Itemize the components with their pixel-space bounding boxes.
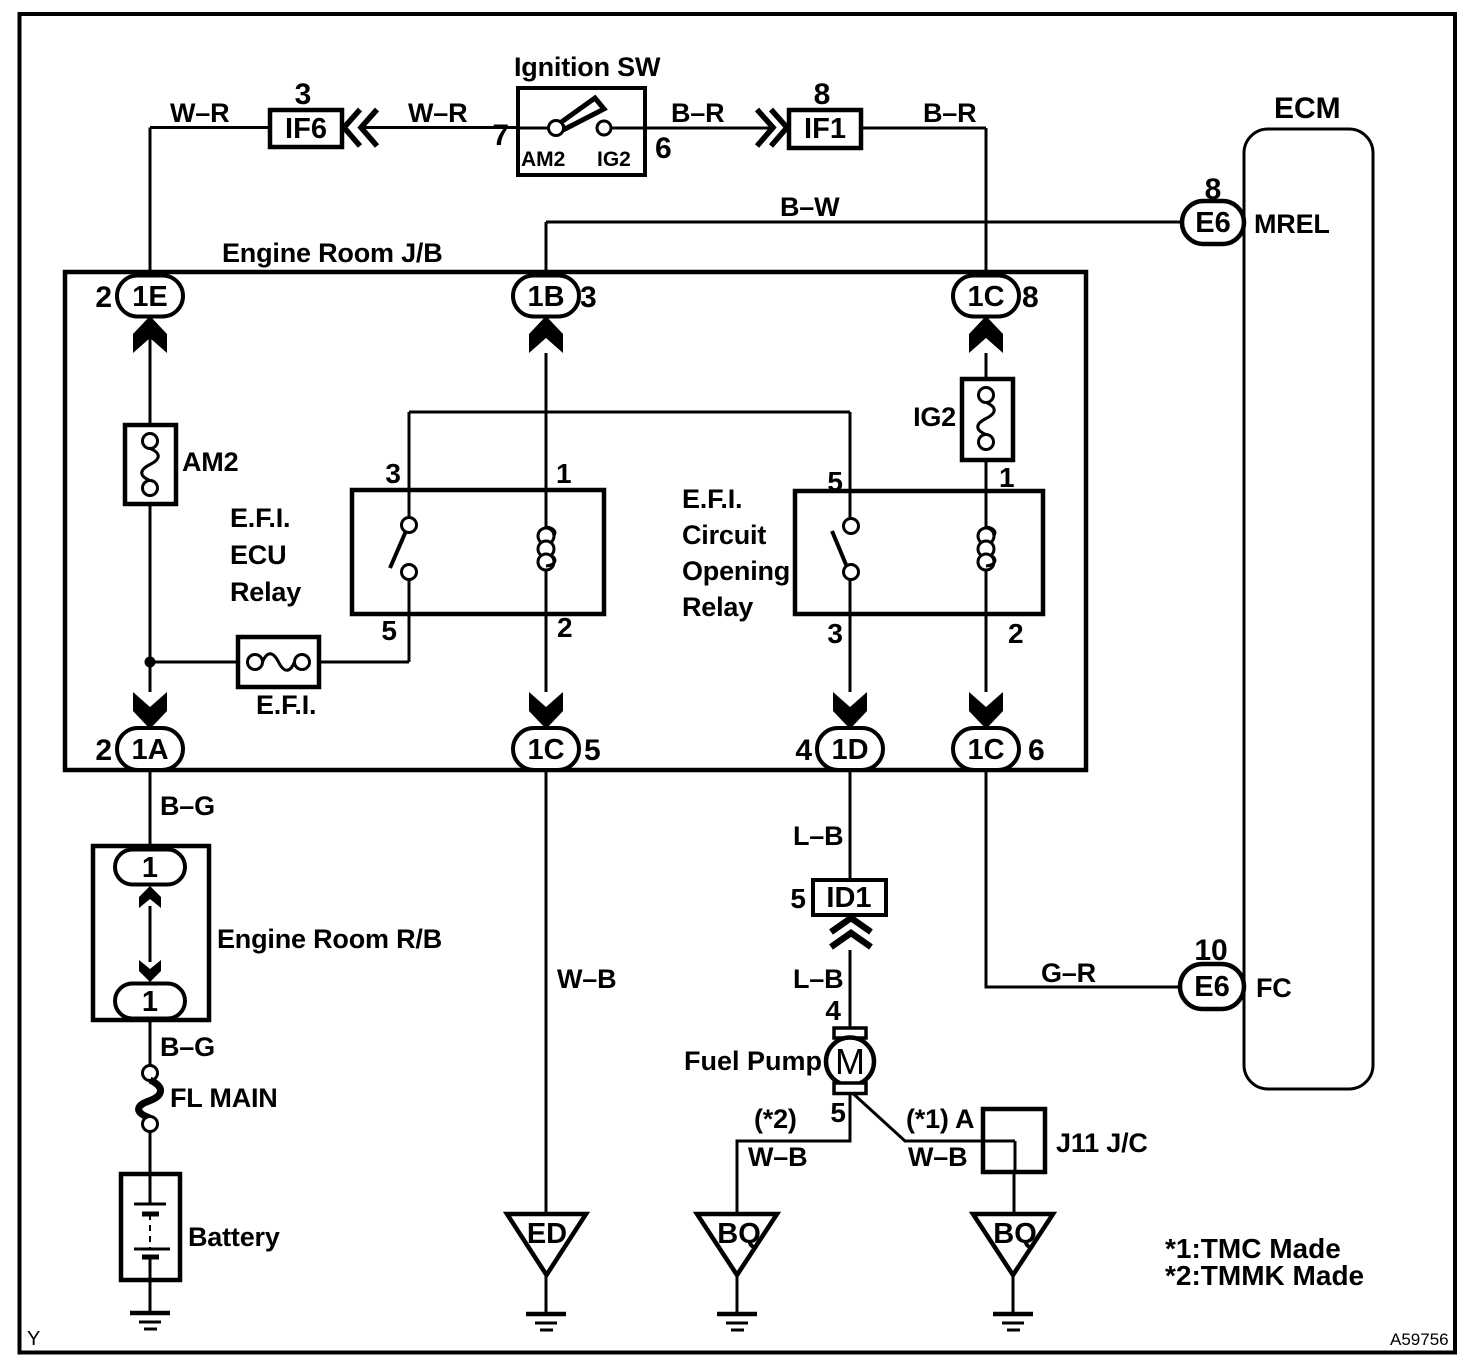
- wire pump to left BQ: [737, 1094, 850, 1214]
- arrow down above 1C5: [529, 692, 563, 729]
- svg-text:Engine Room J/B: Engine Room J/B: [222, 238, 443, 268]
- svg-text:1D: 1D: [831, 734, 868, 766]
- ECU relay coil: [546, 527, 555, 537]
- svg-text:ID1: ID1: [826, 882, 871, 914]
- fuse AM2 wire segments: [149, 353, 152, 441]
- R/B oval 1 bottom: [115, 984, 185, 1019]
- ground battery: [130, 1311, 170, 1316]
- svg-text:E6: E6: [1195, 207, 1230, 239]
- svg-text:ECU: ECU: [230, 540, 286, 570]
- svg-text:B–G: B–G: [160, 791, 215, 821]
- wire EFI fuse to pin5: [303, 661, 409, 664]
- small arrow up: [139, 886, 161, 908]
- svg-text:B–R: B–R: [923, 98, 976, 128]
- svg-text:Circuit: Circuit: [682, 520, 766, 550]
- junction dot: [145, 657, 156, 668]
- arrow down above 1C6: [969, 692, 1003, 729]
- chevrons left-pointing at IF6: [344, 110, 377, 147]
- wire chevron to pump: [849, 950, 852, 1028]
- svg-text:IG2: IG2: [597, 148, 631, 171]
- wire W-R left horizontal: [150, 126, 270, 129]
- svg-text:BQ: BQ: [993, 1218, 1037, 1250]
- svg-text:1: 1: [142, 852, 158, 884]
- svg-text:Relay: Relay: [230, 577, 301, 607]
- svg-text:3: 3: [827, 618, 843, 649]
- fuse IG2: [962, 379, 1013, 460]
- wire pin5 vertical of opening relay: [849, 412, 852, 520]
- R/B oval 1 top: [115, 850, 185, 885]
- svg-text:W–R: W–R: [408, 98, 467, 128]
- relay box circuit opening: [795, 491, 1043, 614]
- small arrow down: [139, 960, 161, 982]
- svg-text:E.F.I.: E.F.I.: [682, 484, 742, 514]
- svg-text:J11 J/C: J11 J/C: [1056, 1128, 1148, 1158]
- svg-text:*2:TMMK Made: *2:TMMK Made: [1165, 1260, 1364, 1291]
- svg-text:AM2: AM2: [521, 148, 565, 171]
- svg-text:2: 2: [95, 281, 112, 314]
- svg-text:IF6: IF6: [285, 113, 327, 145]
- chevrons right-pointing at IF1: [757, 110, 787, 147]
- ignition switch box: [518, 88, 645, 175]
- ignition lever: [560, 98, 604, 129]
- wire B-R from IF1 to right column: [861, 127, 986, 130]
- svg-text:Y: Y: [27, 1328, 40, 1350]
- wire B-W horizontal to MREL: [546, 221, 1182, 224]
- svg-text:Fuel Pump: Fuel Pump: [684, 1046, 822, 1076]
- wire pin3 vertical: [408, 412, 411, 519]
- wire vertical to 1C8: [985, 128, 988, 278]
- svg-text:3: 3: [580, 281, 597, 314]
- svg-text:5: 5: [827, 466, 843, 497]
- svg-text:6: 6: [655, 132, 672, 165]
- svg-text:5: 5: [381, 615, 397, 646]
- wire left vertical to 1E: [149, 128, 152, 279]
- svg-text:2: 2: [1008, 618, 1024, 649]
- svg-text:G–R: G–R: [1041, 958, 1096, 988]
- svg-text:1E: 1E: [132, 281, 167, 313]
- svg-text:7: 7: [492, 119, 509, 152]
- ground BQ left: [717, 1312, 757, 1317]
- svg-text:1: 1: [556, 458, 572, 489]
- wire 1E to AM2 fuse: [149, 316, 152, 441]
- connector 1C pin 6: [953, 728, 1019, 770]
- wire 1A to R/B: [149, 770, 152, 850]
- wire AM2 col to 1A: [149, 662, 152, 692]
- connector 1D: [817, 728, 883, 770]
- opening relay switch: [832, 531, 847, 567]
- svg-text:(*1) A: (*1) A: [906, 1104, 974, 1134]
- ground BQ right: [993, 1312, 1033, 1317]
- ECM box: [1244, 129, 1373, 1089]
- arrow up below 1B: [529, 316, 563, 353]
- fuse IG2 wire segments: [985, 353, 988, 394]
- double chevron up: [831, 918, 871, 947]
- arrow up below 1E: [133, 316, 167, 353]
- ground ED: [526, 1312, 566, 1317]
- svg-text:FL MAIN: FL MAIN: [170, 1083, 278, 1113]
- svg-text:5: 5: [790, 883, 806, 914]
- wire R/B to FL MAIN: [149, 1018, 152, 1073]
- svg-text:B–G: B–G: [160, 1032, 215, 1062]
- fuse AM2: [125, 425, 176, 504]
- svg-text:Engine Room R/B: Engine Room R/B: [217, 924, 442, 954]
- connector 1B: [513, 276, 579, 317]
- svg-text:W–B: W–B: [557, 964, 616, 994]
- wire pin5 of ECU relay: [408, 579, 411, 662]
- svg-text:8: 8: [1022, 281, 1039, 314]
- wire inside R/B: [149, 906, 152, 962]
- ground triangle BQ right: [973, 1214, 1053, 1275]
- relay box E.F.I. ECU: [352, 490, 604, 614]
- svg-text:1: 1: [142, 986, 158, 1018]
- svg-text:1B: 1B: [527, 281, 564, 313]
- svg-text:1: 1: [999, 462, 1015, 493]
- svg-text:ED: ED: [527, 1218, 567, 1250]
- svg-text:(*2): (*2): [754, 1104, 797, 1134]
- wire pump diagonal to J11: [853, 1094, 983, 1142]
- svg-text:L–B: L–B: [793, 821, 843, 851]
- Engine Room J/B box: [65, 272, 1086, 770]
- svg-text:3: 3: [385, 458, 401, 489]
- svg-text:1C: 1C: [527, 734, 564, 766]
- wire junction to EFI fuse: [150, 661, 254, 664]
- junction connector J11 J/C: [983, 1109, 1045, 1172]
- ground triangle ED: [507, 1214, 586, 1275]
- svg-text:2: 2: [95, 734, 112, 767]
- connector 1E: [117, 276, 183, 317]
- svg-text:W–B: W–B: [908, 1142, 967, 1172]
- fuse connector IF1: [789, 110, 861, 148]
- svg-text:3: 3: [295, 78, 312, 111]
- wire B-R from ignition to IF1: [645, 127, 770, 130]
- svg-text:B–R: B–R: [671, 98, 724, 128]
- svg-text:5: 5: [830, 1097, 846, 1128]
- wire 1D to ID1: [849, 770, 852, 880]
- wire 1B to ECU relay coil: [545, 353, 548, 527]
- svg-text:E6: E6: [1194, 971, 1229, 1003]
- svg-text:Opening: Opening: [682, 556, 790, 586]
- svg-text:BQ: BQ: [717, 1218, 761, 1250]
- wire 1C5 to ED: [545, 770, 548, 1213]
- fuse E.F.I.: [238, 637, 319, 687]
- svg-text:4: 4: [795, 734, 812, 767]
- svg-text:2: 2: [557, 612, 573, 643]
- svg-text:W–R: W–R: [170, 98, 229, 128]
- fusible link FL MAIN: [143, 1066, 158, 1081]
- svg-text:E.F.I.: E.F.I.: [256, 690, 316, 720]
- wire pin3 of opening relay down: [849, 579, 852, 692]
- svg-text:M: M: [835, 1041, 865, 1082]
- svg-text:1C: 1C: [967, 281, 1004, 313]
- arrow down above 1D: [833, 692, 867, 729]
- svg-text:ECM: ECM: [1274, 92, 1341, 125]
- svg-text:8: 8: [814, 78, 831, 111]
- arrow down above 1A: [133, 692, 167, 729]
- battery: [121, 1174, 180, 1280]
- svg-text:6: 6: [1028, 734, 1045, 767]
- ECU relay switch: [390, 531, 406, 568]
- wire J11 to BQ: [1013, 1172, 1016, 1213]
- svg-text:AM2: AM2: [182, 447, 238, 477]
- connector E6 FC: [1180, 964, 1244, 1009]
- svg-text:A59756: A59756: [1390, 1330, 1449, 1349]
- svg-text:Relay: Relay: [682, 592, 753, 622]
- svg-text:1A: 1A: [131, 734, 168, 766]
- opening relay coil: [986, 527, 995, 537]
- connector 1A: [117, 728, 183, 770]
- wire 1C6 to FC: [986, 770, 1180, 987]
- svg-text:MREL: MREL: [1254, 209, 1330, 239]
- connector 1C pin 5: [513, 728, 579, 770]
- fuse connector IF6: [270, 110, 342, 147]
- Engine Room R/B box: [93, 846, 209, 1020]
- svg-text:IG2: IG2: [913, 402, 956, 432]
- wire W-R middle: [362, 126, 518, 129]
- ground triangle BQ left: [697, 1214, 777, 1275]
- connector 1C pin 8: [953, 276, 1019, 317]
- svg-text:1C: 1C: [967, 734, 1004, 766]
- svg-text:L–B: L–B: [793, 964, 843, 994]
- svg-text:B–W: B–W: [780, 192, 840, 222]
- svg-text:Battery: Battery: [188, 1222, 280, 1252]
- svg-text:E.F.I.: E.F.I.: [230, 503, 290, 533]
- wire FL MAIN to battery: [149, 1131, 152, 1204]
- connector ID1: [813, 880, 886, 915]
- svg-text:4: 4: [825, 995, 841, 1026]
- wire B-W vertical to 1B: [545, 222, 548, 278]
- svg-text:5: 5: [584, 734, 601, 767]
- svg-text:IF1: IF1: [804, 113, 846, 145]
- arrow up below 1C8: [969, 316, 1003, 353]
- wire horizontal pin3 to pin5: [409, 411, 850, 414]
- svg-text:W–B: W–B: [748, 1142, 807, 1172]
- svg-text:FC: FC: [1256, 973, 1292, 1003]
- svg-text:Ignition SW: Ignition SW: [514, 52, 661, 82]
- connector E6 MREL: [1182, 201, 1244, 244]
